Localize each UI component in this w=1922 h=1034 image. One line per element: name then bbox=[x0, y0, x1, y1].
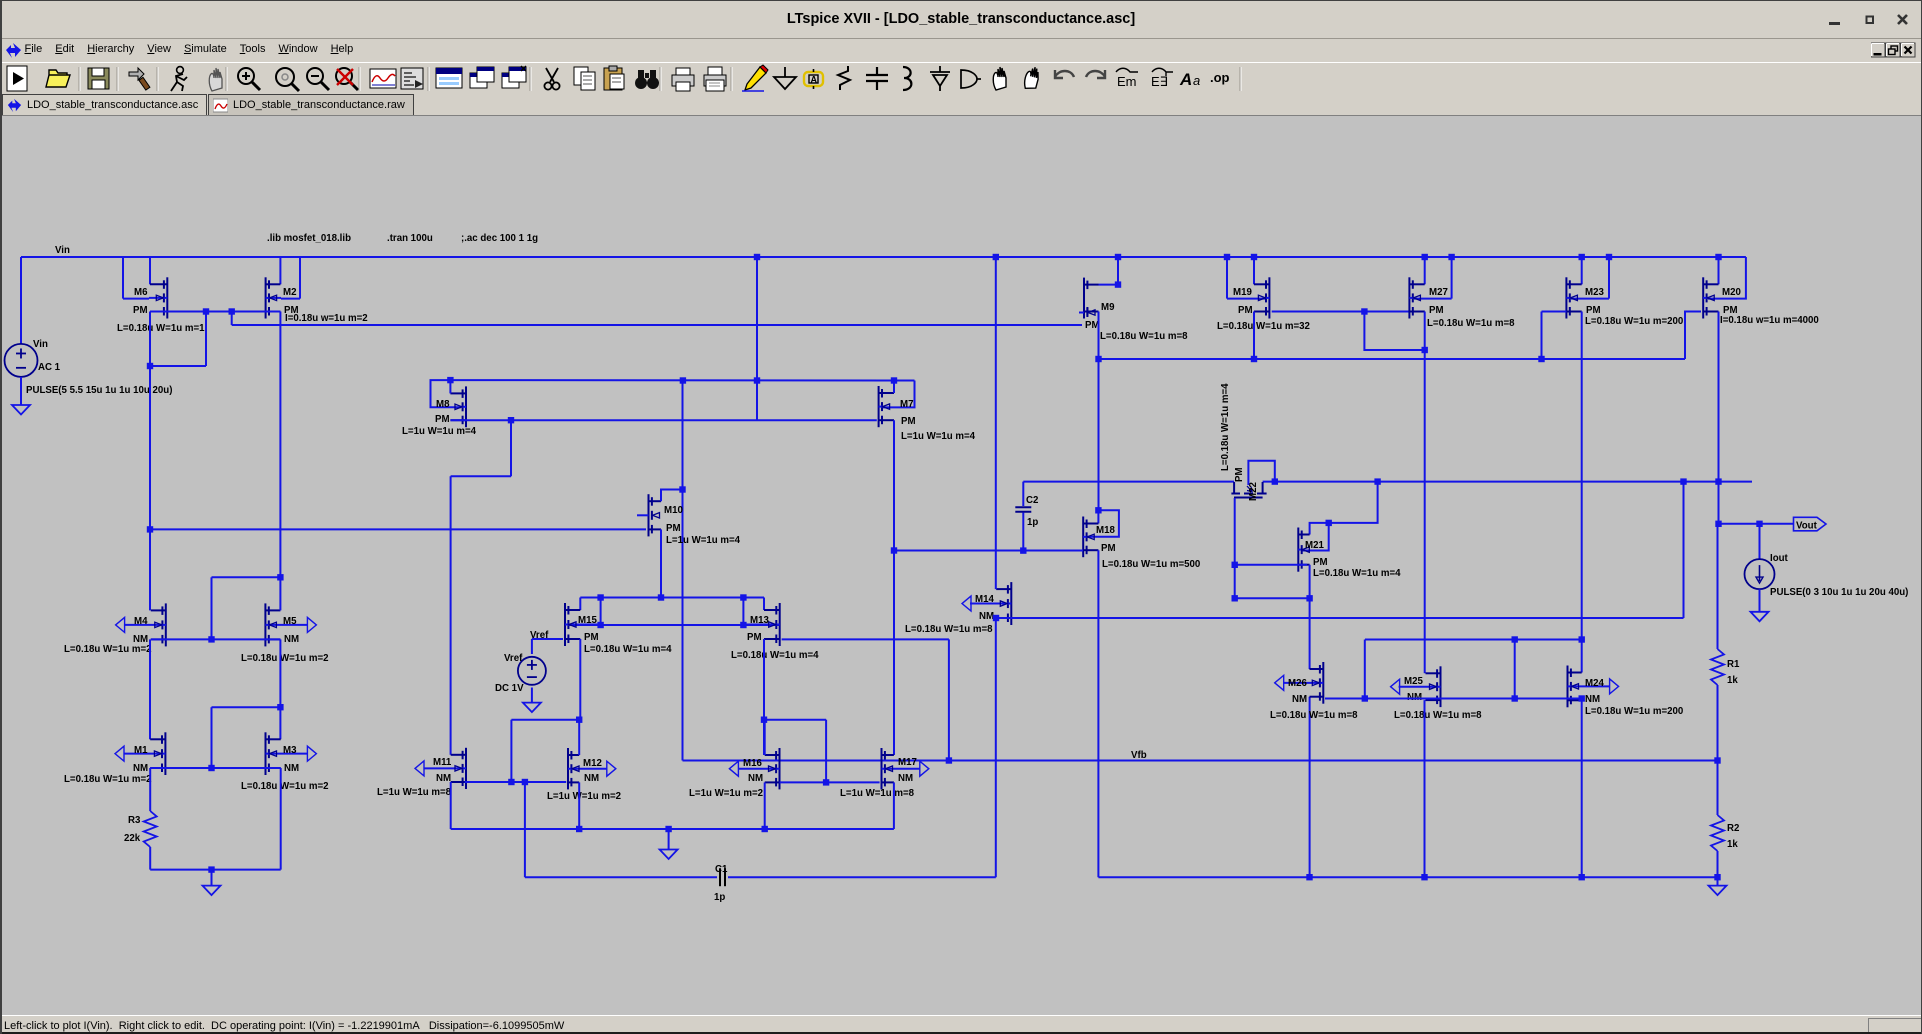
svg-text:PM: PM bbox=[1313, 557, 1328, 568]
svg-text:1p: 1p bbox=[714, 892, 725, 903]
wire M10 drain down bbox=[660, 529, 662, 597]
junction bbox=[1448, 254, 1454, 260]
wire M23 bulk stub bbox=[1542, 311, 1567, 313]
wire M15 source down bbox=[579, 639, 581, 720]
wire M3 source down bbox=[280, 768, 282, 870]
wire ground bus left block bbox=[150, 869, 281, 871]
junction bbox=[203, 308, 209, 314]
svg-text:M6: M6 bbox=[134, 287, 148, 298]
svg-text:L=1u W=1u m=8: L=1u W=1u m=8 bbox=[840, 788, 915, 799]
transistor M21 bbox=[1298, 528, 1309, 572]
wire Vin source top bbox=[20, 257, 22, 344]
wire M21 drain loop bbox=[1310, 482, 1378, 535]
svg-text:1p: 1p bbox=[1027, 517, 1038, 528]
wire M15 drain stub bbox=[579, 598, 581, 611]
transistor M15 bbox=[565, 603, 599, 646]
junction bbox=[1306, 874, 1312, 880]
svg-text:L=1u W=1u m=2: L=1u W=1u m=2 bbox=[547, 791, 621, 802]
svg-text:M21: M21 bbox=[1305, 540, 1324, 551]
wire M23 gate lead bbox=[1571, 298, 1609, 300]
transistor M12 bbox=[607, 761, 616, 776]
wire C1 bus right bbox=[728, 876, 996, 878]
junction bbox=[1374, 478, 1380, 484]
wire to M6 drain line bbox=[150, 365, 206, 367]
wire M20 gate from rail end bbox=[1708, 257, 1746, 299]
wire M11-M12 source link bbox=[465, 781, 567, 783]
wire M20 bulk hook bbox=[1685, 312, 1701, 360]
svg-text:PM: PM bbox=[1586, 305, 1601, 316]
svg-text:PM: PM bbox=[1085, 320, 1100, 331]
svg-text:Em: Em bbox=[1117, 74, 1137, 89]
wire M12 source down bbox=[578, 782, 580, 829]
junction bbox=[147, 363, 153, 369]
junction bbox=[1512, 636, 1518, 642]
capacitor C1 bbox=[719, 868, 721, 886]
junction bbox=[1232, 562, 1238, 568]
svg-text:L=0.18u W=1u m=32: L=0.18u W=1u m=32 bbox=[1217, 321, 1310, 332]
current source Iout bbox=[1745, 559, 1775, 589]
svg-text:Vout: Vout bbox=[1796, 521, 1818, 532]
svg-text:M7: M7 bbox=[900, 399, 913, 410]
svg-text:M17: M17 bbox=[898, 757, 917, 768]
svg-text:PM: PM bbox=[435, 414, 450, 425]
wire M5 source to M3 drain bbox=[279, 639, 281, 739]
wire Vfb to R2 bbox=[1717, 761, 1719, 816]
ground left block bbox=[203, 886, 221, 896]
svg-text:M11: M11 bbox=[433, 757, 452, 768]
wire M16 jog drop bbox=[825, 720, 827, 783]
wire M19 source to rail bbox=[1253, 257, 1255, 284]
wire drop x1514 bbox=[1514, 640, 1516, 699]
svg-text:M13: M13 bbox=[750, 615, 769, 626]
junction bbox=[1422, 254, 1428, 260]
svg-text:M24: M24 bbox=[1585, 678, 1604, 689]
junction bbox=[823, 779, 829, 785]
junction bbox=[1095, 356, 1101, 362]
junction bbox=[208, 866, 214, 872]
svg-text:NM: NM bbox=[584, 773, 599, 784]
wire M8-M7 top link bbox=[450, 379, 914, 381]
transistor M5 bbox=[307, 617, 316, 632]
svg-text:;.ac dec 100 1 1g: ;.ac dec 100 1 1g bbox=[461, 233, 538, 244]
svg-text:M18: M18 bbox=[1096, 525, 1115, 536]
wire M9 to rail bbox=[1117, 257, 1119, 285]
transistor M6 bbox=[149, 277, 167, 318]
wire Vin source bottom bbox=[20, 377, 22, 405]
svg-text:I=0.18u w=1u m=2: I=0.18u w=1u m=2 bbox=[285, 313, 368, 324]
wire M2 gate drop bbox=[299, 257, 301, 299]
transistor M1 bbox=[115, 746, 124, 761]
transistor M10 bbox=[637, 494, 661, 536]
wire M16-M17 bulk link bbox=[780, 781, 880, 783]
wire M6 gate lead bbox=[123, 298, 149, 300]
svg-text:L=0.18u W=1u m=1: L=0.18u W=1u m=1 bbox=[117, 323, 205, 334]
junction bbox=[447, 377, 453, 383]
junction bbox=[277, 704, 283, 710]
wire ground stem right bbox=[1717, 877, 1719, 885]
wire Iout top bbox=[1759, 524, 1761, 559]
svg-text:M4: M4 bbox=[134, 616, 148, 627]
svg-text:PM: PM bbox=[666, 523, 681, 534]
wire M23 gate drop bbox=[1608, 257, 1610, 299]
svg-text:M26: M26 bbox=[1288, 678, 1307, 689]
junction bbox=[1224, 254, 1230, 260]
junction bbox=[946, 757, 952, 763]
wire M15-M13 gate bus bbox=[569, 624, 780, 626]
wire drop to C1 bus bbox=[524, 782, 526, 877]
junction bbox=[1512, 695, 1518, 701]
svg-text:Iout: Iout bbox=[1770, 553, 1789, 564]
wire M10 source jog bbox=[661, 490, 683, 502]
svg-text:L=0.18u W=1u m=4: L=0.18u W=1u m=4 bbox=[1313, 568, 1401, 579]
flag Vout bbox=[1794, 517, 1827, 531]
wire M22 gate diode loop bbox=[1248, 461, 1274, 485]
wire M4 source to M1 drain bbox=[149, 639, 151, 739]
svg-text:PM: PM bbox=[747, 632, 762, 643]
svg-text:L=1u W=1u m=2: L=1u W=1u m=2 bbox=[689, 788, 763, 799]
wire drop to M11 source bbox=[510, 720, 512, 782]
junction bbox=[1579, 874, 1585, 880]
wire mid horizontal to M9 bbox=[232, 324, 1082, 326]
junction bbox=[1579, 254, 1585, 260]
junction bbox=[1095, 507, 1101, 513]
wire M15-M13 drain line bbox=[580, 597, 764, 599]
wire M2 drain down to M5 bbox=[279, 312, 281, 611]
svg-text:L=0.18u W=1u m=500: L=0.18u W=1u m=500 bbox=[1102, 559, 1200, 570]
svg-text:L=0.18u W=1u m=8: L=0.18u W=1u m=8 bbox=[1427, 318, 1515, 329]
junction bbox=[1714, 757, 1720, 763]
wire M19 drain down bbox=[1253, 312, 1255, 360]
wire source bus stage2 bbox=[451, 828, 894, 830]
wire long x150 to M10 drain bbox=[149, 528, 646, 530]
transistor M17 bbox=[920, 761, 929, 776]
wire M6-M2 bottom link bbox=[150, 311, 280, 313]
wire M5 diode jog top bbox=[212, 576, 281, 578]
wire M14 source link right bbox=[996, 617, 1684, 619]
wire jog left bbox=[451, 475, 511, 477]
junction bbox=[762, 826, 768, 832]
wire M20 drain down to Vout bbox=[1718, 312, 1720, 524]
svg-text:NM: NM bbox=[979, 611, 994, 622]
wire M7 source stub bbox=[893, 381, 895, 394]
svg-text:NM: NM bbox=[1585, 694, 1600, 705]
svg-text:AC 1: AC 1 bbox=[38, 362, 61, 373]
svg-text:L=0.18u W=1u m=2: L=0.18u W=1u m=2 bbox=[64, 644, 152, 655]
wire M6 gate drop bbox=[122, 257, 124, 299]
svg-text:M23: M23 bbox=[1585, 287, 1604, 298]
svg-text:M3: M3 bbox=[283, 745, 297, 756]
transistor M2 bbox=[266, 277, 281, 318]
junction bbox=[1715, 478, 1721, 484]
resistor R2 bbox=[1711, 815, 1724, 851]
svg-text:L=0.18u W=1u m=8: L=0.18u W=1u m=8 bbox=[1100, 331, 1188, 342]
svg-text:M22: M22 bbox=[1248, 482, 1259, 501]
junction bbox=[597, 622, 603, 628]
wire down to M11 drain bbox=[450, 476, 452, 755]
wire diode tie left bbox=[600, 598, 602, 626]
svg-text:M9: M9 bbox=[1101, 302, 1115, 313]
transistor M8 bbox=[450, 386, 466, 427]
junction bbox=[576, 717, 582, 723]
wire M13 bulk to Vfb drop bbox=[782, 638, 949, 640]
wire M23 bulk drop bbox=[1541, 312, 1543, 360]
wire to mid rail bbox=[231, 312, 233, 326]
svg-text:PM: PM bbox=[133, 305, 148, 316]
transistor M22 (rotated) bbox=[1231, 482, 1266, 498]
wire M9 drain down bbox=[1098, 312, 1100, 511]
junction bbox=[229, 308, 235, 314]
junction bbox=[665, 826, 671, 832]
wire M21 source to M26 drain bbox=[1309, 565, 1311, 669]
resistor R1 bbox=[1711, 649, 1724, 685]
wire M1-M3 source link bbox=[150, 767, 281, 769]
junction bbox=[658, 594, 664, 600]
wire M4-M5 source link bbox=[151, 638, 281, 640]
junction bbox=[754, 254, 760, 260]
wire M25 source down bbox=[1424, 700, 1426, 877]
wire M3 diode jog drop bbox=[211, 707, 213, 768]
wire M18 source down to bus bbox=[1097, 550, 1099, 877]
junction bbox=[1272, 478, 1278, 484]
wire M18 gate feed bbox=[894, 550, 1083, 552]
transistor M25 bbox=[1391, 679, 1400, 694]
svg-text:1k: 1k bbox=[1727, 675, 1738, 686]
transistor M24 bbox=[1610, 679, 1619, 694]
svg-text:M19: M19 bbox=[1233, 287, 1252, 298]
wire M2 gate lead bbox=[281, 298, 300, 300]
svg-text:M5: M5 bbox=[283, 616, 297, 627]
junction bbox=[1715, 254, 1721, 260]
svg-text:PM: PM bbox=[901, 416, 916, 427]
junction bbox=[208, 636, 214, 642]
svg-text:E∃: E∃ bbox=[1151, 74, 1168, 89]
wire M23 source to rail bbox=[1581, 257, 1583, 284]
junction bbox=[1756, 521, 1762, 527]
wire M9 source jog bbox=[1099, 284, 1119, 286]
wire jog to M27 drain bbox=[1364, 312, 1424, 351]
junction bbox=[1326, 520, 1332, 526]
wire y481 right of M22 bbox=[1263, 481, 1752, 483]
wire M6 drain down to M4 bbox=[149, 312, 151, 611]
svg-text:C1: C1 bbox=[715, 864, 728, 875]
svg-text:Vref: Vref bbox=[504, 653, 523, 664]
svg-text:PULSE(0 3 10u 1u 1u 20u 40u): PULSE(0 3 10u 1u 1u 20u 40u) bbox=[1770, 587, 1908, 598]
wire M21 gate diode loop bbox=[1301, 523, 1329, 551]
wire M22 bulk down bbox=[1234, 498, 1236, 598]
ground stage2 bbox=[660, 850, 678, 860]
wire M16 source down bbox=[764, 782, 766, 829]
wire R2 to bus bbox=[1717, 851, 1719, 877]
wire M19 gate drop bbox=[1226, 257, 1228, 299]
junction bbox=[993, 615, 999, 621]
wire M21 jog bbox=[1235, 597, 1309, 599]
svg-text:L=0.18u W=1u m=4: L=0.18u W=1u m=4 bbox=[731, 650, 819, 661]
svg-text:M8: M8 bbox=[436, 399, 450, 410]
wire M13 source down to M16 bbox=[763, 639, 765, 755]
junction bbox=[680, 377, 686, 383]
svg-text:.op: .op bbox=[1210, 70, 1230, 85]
wire M26 source down to bus bbox=[1309, 697, 1311, 878]
svg-text:M15: M15 bbox=[578, 615, 597, 626]
wire M18 gate diode loop bbox=[1091, 510, 1119, 537]
junction bbox=[891, 547, 897, 553]
wire M13 drain stub bbox=[763, 598, 765, 611]
transistor M19 bbox=[1254, 277, 1269, 318]
wire Vout bbox=[1719, 523, 1794, 525]
resistor R3 bbox=[144, 811, 157, 847]
wire M16 drain jog bbox=[765, 719, 826, 721]
svg-text:L=0.18u W=1u m=2: L=0.18u W=1u m=2 bbox=[241, 781, 329, 792]
svg-text:L=0.18u W=1u m=4: L=0.18u W=1u m=4 bbox=[1220, 383, 1231, 471]
tab bar bbox=[0, 94, 1922, 116]
wire M27 drain down to M25 bbox=[1424, 312, 1426, 674]
svg-text:Vin: Vin bbox=[33, 339, 48, 350]
svg-text:NM: NM bbox=[1292, 694, 1307, 705]
wire Vout to R1 bbox=[1717, 524, 1719, 649]
svg-text:NM: NM bbox=[133, 763, 148, 774]
transistor M4 bbox=[116, 617, 125, 632]
junction bbox=[1251, 356, 1257, 362]
svg-text:DC 1V: DC 1V bbox=[495, 683, 524, 694]
voltage source Vin bbox=[5, 344, 38, 377]
junction bbox=[1538, 356, 1544, 362]
svg-text:R1: R1 bbox=[1727, 659, 1740, 670]
wire M17 source down bbox=[893, 782, 895, 829]
window title bar bbox=[0, 0, 1922, 39]
svg-text:L=0.18u W=1u m=8: L=0.18u W=1u m=8 bbox=[1270, 710, 1358, 721]
wire M19 bulk to M27 bbox=[1272, 311, 1425, 313]
svg-text:NM: NM bbox=[898, 773, 913, 784]
transistor M3 bbox=[307, 746, 316, 761]
junction bbox=[277, 574, 283, 580]
wire x682 M10 source to Vfb bbox=[682, 381, 684, 761]
junction bbox=[1361, 308, 1367, 314]
wire ground stem bbox=[211, 870, 213, 886]
junction bbox=[1714, 874, 1720, 880]
svg-text:A: A bbox=[811, 75, 818, 85]
wire upper link M25-M24 drains bbox=[1365, 639, 1582, 641]
wire x757 link bbox=[756, 381, 758, 421]
transistor M18 bbox=[1083, 517, 1098, 558]
wire M1 source to R3 bbox=[149, 768, 151, 811]
svg-text:L=0.18u W=1u m=8: L=0.18u W=1u m=8 bbox=[1394, 710, 1482, 721]
wire Iout bottom bbox=[1759, 589, 1761, 612]
svg-text:L=1u W=1u m=4: L=1u W=1u m=4 bbox=[402, 426, 477, 437]
svg-text:M16: M16 bbox=[743, 758, 762, 769]
wire stage3 source link bbox=[1325, 698, 1582, 700]
wire rail drop x757 upper bbox=[756, 257, 758, 381]
junction bbox=[1362, 695, 1368, 701]
svg-text:PM: PM bbox=[1101, 543, 1116, 554]
svg-text:A: A bbox=[1179, 70, 1192, 89]
transistor M7 bbox=[879, 386, 894, 427]
junction bbox=[1306, 595, 1312, 601]
transistor M20 bbox=[1703, 277, 1718, 318]
wire M27 gate lead bbox=[1414, 298, 1452, 300]
svg-text:M20: M20 bbox=[1722, 287, 1741, 298]
svg-text:M10: M10 bbox=[664, 505, 683, 516]
wire bottom bus right bbox=[1098, 876, 1717, 878]
transistor M11 bbox=[415, 761, 424, 776]
svg-text:.tran 100u: .tran 100u bbox=[387, 233, 433, 244]
svg-text:R2: R2 bbox=[1727, 823, 1739, 834]
wire second stage drain link bbox=[511, 719, 579, 721]
svg-text:M12: M12 bbox=[583, 758, 602, 769]
svg-text:NM: NM bbox=[748, 773, 763, 784]
svg-text:R3: R3 bbox=[128, 815, 141, 826]
junction bbox=[754, 377, 760, 383]
wire x1683 drop to M14 link bbox=[1683, 482, 1685, 618]
wire M14 source down bbox=[995, 618, 997, 877]
wire M19 gate lead bbox=[1227, 298, 1266, 300]
wire M7 gate diode loop bbox=[883, 381, 915, 408]
wire M23 drain down to M24 bbox=[1581, 312, 1583, 673]
wire drop from M6-M2 link bbox=[205, 312, 207, 367]
junction bbox=[508, 417, 514, 423]
wire C2 bottom stem bbox=[1022, 513, 1024, 551]
junction bbox=[576, 826, 582, 832]
svg-text:Vfb: Vfb bbox=[1131, 750, 1147, 761]
svg-text:M14: M14 bbox=[975, 594, 994, 605]
svg-text:PM: PM bbox=[1238, 305, 1253, 316]
wire M24 source down bbox=[1581, 699, 1583, 878]
junction bbox=[1115, 281, 1121, 287]
svg-text:M1: M1 bbox=[134, 745, 148, 756]
wire M6 source to rail bbox=[149, 257, 151, 284]
junction bbox=[508, 779, 514, 785]
wire Vref source top bbox=[531, 639, 533, 654]
wire Vref to M15 bulk bbox=[532, 638, 563, 640]
ground at Vin source bbox=[12, 405, 30, 415]
transistor M26 bbox=[1275, 675, 1284, 690]
svg-text:PM: PM bbox=[584, 632, 599, 643]
wire Vfb drop bbox=[948, 639, 950, 760]
wire M7 drain down to M17 bbox=[893, 420, 895, 755]
svg-text:L=0.18u W=1u m=8: L=0.18u W=1u m=8 bbox=[905, 624, 993, 635]
transistor M9 bbox=[1079, 278, 1099, 319]
junction bbox=[1579, 636, 1585, 642]
svg-text:1k: 1k bbox=[1727, 839, 1738, 850]
junction bbox=[1715, 521, 1721, 527]
capacitor C2 bbox=[1015, 506, 1031, 508]
svg-text:M27: M27 bbox=[1429, 287, 1448, 298]
junction bbox=[208, 765, 214, 771]
wire Vref source bottom bbox=[531, 688, 533, 703]
svg-text:22k: 22k bbox=[124, 833, 141, 844]
wire Vin top rail bbox=[21, 256, 1746, 258]
junction bbox=[993, 254, 999, 260]
junction bbox=[1422, 347, 1428, 353]
svg-text:NM: NM bbox=[284, 763, 299, 774]
wire ground stem stage2 bbox=[668, 829, 670, 850]
wire bias rail y358 bbox=[1099, 358, 1686, 360]
status bar bbox=[0, 1015, 1922, 1034]
svg-text:C2: C2 bbox=[1026, 495, 1038, 506]
junction bbox=[761, 717, 767, 723]
wire R1 to Vfb bbox=[1717, 685, 1719, 761]
transistor M13 bbox=[745, 603, 780, 646]
wire M2 source to rail bbox=[279, 257, 281, 284]
wire M27 source to rail bbox=[1424, 257, 1426, 284]
junction bbox=[1579, 695, 1585, 701]
junction bbox=[1020, 547, 1026, 553]
svg-text:L=0.18u W=1u m=200: L=0.18u W=1u m=200 bbox=[1585, 316, 1683, 327]
wire M14 drain to rail bbox=[995, 257, 997, 589]
transistor M14 bbox=[962, 596, 971, 611]
svg-text:L=0.18u W=1u m=4: L=0.18u W=1u m=4 bbox=[584, 644, 672, 655]
wire M8 source stub bbox=[449, 380, 451, 393]
wire M8-M7 drain link bbox=[450, 419, 876, 421]
